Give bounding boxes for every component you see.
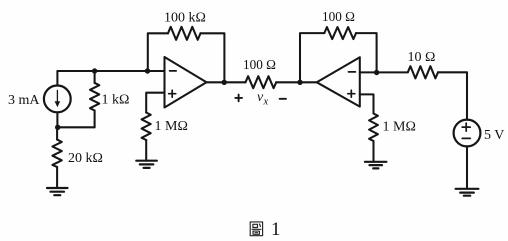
wire: feedback loop right vertical down to U1 output: [201, 33, 225, 82]
svg-text:20 kΩ: 20 kΩ: [68, 151, 103, 166]
wire: main input rail to op-amp U1 inverting input: [58, 70, 165, 72]
node C: U1 output junction: [222, 80, 227, 85]
node B: feedback tap on input rail: [145, 68, 150, 73]
svg-text:1 kΩ: 1 kΩ: [102, 93, 130, 108]
svg-text:100 Ω: 100 Ω: [243, 57, 276, 72]
svg-text:1 MΩ: 1 MΩ: [155, 119, 188, 134]
resistor R1 100 kOhm (feedback of U1): [168, 27, 201, 40]
wire: R5 to U2 output node: [276, 81, 317, 83]
resistor R5 100 Ohm (vx sense): [246, 76, 277, 88]
label + vx -: [235, 90, 286, 108]
op-amp U1: [165, 57, 207, 108]
resistor R8 10 Ohm: [408, 66, 438, 78]
wire: feedback loop left vertical (U2): [300, 33, 324, 82]
current source I1 (3 mA): [44, 71, 71, 127]
svg-text:x: x: [263, 97, 269, 108]
svg-text:1 MΩ: 1 MΩ: [383, 120, 416, 135]
wire: feedback loop left vertical (U1): [148, 33, 168, 71]
node A: junction current source / 20k / 1k bottom: [55, 125, 60, 130]
ground G3 under R7: [365, 162, 387, 169]
ground G1 under 20 kOhm: [47, 188, 68, 195]
wire: U1 output to R5: [207, 81, 246, 83]
wire: U2 non-inverting input down to R7: [360, 94, 374, 113]
wire: U2 inverting input rail to 10 Ohm: [360, 71, 408, 73]
wire: 10 Ohm to 5V source: [438, 72, 467, 119]
svg-text:100 Ω: 100 Ω: [322, 9, 355, 24]
svg-text:3 mA: 3 mA: [8, 93, 40, 108]
caption figure 1 (CJK glyph drawn as strokes): [250, 222, 262, 236]
ground G4 under V1: [456, 189, 479, 196]
svg-text:1: 1: [271, 219, 281, 240]
resistor R7 1 MOhm (U2 + input to ground): [369, 114, 378, 162]
resistor R3 20 kOhm (vertical): [52, 127, 61, 188]
svg-text:5 V: 5 V: [484, 128, 504, 143]
node D: U2 output junction: [297, 80, 302, 85]
resistor R4 1 MOhm (U1 + input to ground): [142, 113, 151, 161]
op-amp U2 (mirrored, points left): [317, 57, 360, 106]
wire: feedback loop right vertical down to U2 inverting input: [356, 33, 377, 72]
wire: bottom rail between current source and 1 kOhm: [58, 126, 95, 128]
ground G2 under R4: [136, 161, 157, 168]
node: 1 kOhm top junction on rail: [92, 68, 97, 73]
svg-text:10 Ω: 10 Ω: [408, 50, 436, 65]
voltage source V1 (5 V): [454, 120, 481, 189]
svg-text:100 kΩ: 100 kΩ: [164, 11, 206, 26]
node E: feedback junction on U2 input rail: [374, 70, 379, 75]
resistor R2 1 kOhm (vertical): [90, 71, 99, 127]
wire: U1 non-inverting input down to R4: [146, 93, 164, 113]
resistor R6 100 Ohm (feedback of U2): [324, 27, 356, 39]
